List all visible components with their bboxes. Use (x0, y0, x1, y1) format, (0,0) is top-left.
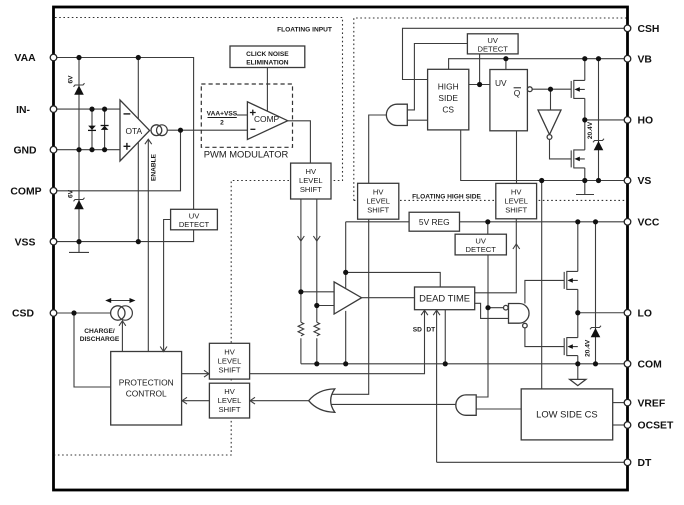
wire charge current source to protection (121, 321, 123, 352)
svg-text:COMP: COMP (254, 114, 280, 124)
svg-text:DT: DT (426, 326, 435, 333)
svg-text:DEAD TIME: DEAD TIME (419, 293, 470, 304)
floating high side dotted region boundary (354, 18, 627, 200)
wire CSD (54, 313, 111, 387)
wire mosfet drains sources high side (584, 59, 586, 181)
svg-text:HV: HV (224, 387, 235, 396)
pin VREF (624, 399, 631, 406)
wire OTA output to COMP comparator (167, 129, 247, 131)
junction latch output inverter (548, 87, 553, 92)
wire UV detect top output (479, 54, 481, 85)
svg-text:2: 2 (220, 119, 224, 126)
pin OCSET (624, 422, 631, 429)
junction VCC mosfet drain (575, 219, 580, 224)
svg-text:HO: HO (638, 116, 654, 127)
wire HV level shift lower to protection (182, 400, 209, 402)
wire nand output to mosfet gates (525, 280, 564, 346)
pin VS (624, 177, 631, 184)
wire LO (578, 312, 628, 314)
box HV level shift high side left (358, 183, 399, 219)
comparator COMP (247, 102, 287, 140)
pin CSD (50, 310, 57, 317)
box click noise elimination (230, 46, 305, 68)
arrowhead up into charge discharge source (119, 321, 126, 326)
wire vref fraction to comparator (237, 114, 248, 116)
svg-text:COM: COM (638, 360, 662, 371)
junction VB mosfet drain (582, 56, 587, 61)
svg-text:6V: 6V (68, 189, 75, 198)
arrowhead left into HV level shift lower (250, 397, 255, 404)
wire OR gate to HV level shift lower (250, 400, 309, 402)
pin IN- (50, 106, 57, 113)
wire HV level shift upper to dead time SD (250, 310, 425, 374)
wire VS to low side CS (541, 181, 543, 389)
pin DT (624, 459, 631, 466)
svg-text:PROTECTION: PROTECTION (119, 377, 174, 387)
wire low side CS to and-low (476, 408, 521, 410)
svg-text:DETECT: DETECT (179, 220, 210, 229)
svg-text:SHIFT: SHIFT (367, 205, 389, 214)
svg-text:COMP: COMP (10, 187, 41, 198)
junction VS zener (596, 178, 601, 183)
junction IN- diode A (89, 107, 94, 112)
wire and-high input1 from UV detect top (407, 44, 467, 110)
wire VB rail (449, 59, 628, 70)
svg-text:CONTROL: CONTROL (126, 388, 167, 398)
svg-text:CSD: CSD (12, 309, 34, 320)
wire HV level shift pwm output A (300, 199, 302, 364)
box PWM modulator dashed (201, 84, 292, 160)
junction uv detect top output (477, 82, 482, 87)
wire VCC rail (460, 221, 628, 223)
svg-text:OCSET: OCSET (638, 421, 674, 432)
mosfet Q2 high side lower (571, 149, 585, 168)
box HV level shift high side right (496, 183, 537, 218)
junction VSS zener (76, 239, 81, 244)
svg-text:SHIFT: SHIFT (219, 405, 241, 414)
svg-text:HV: HV (306, 167, 317, 176)
mosfet Q1 high side upper (571, 80, 585, 99)
or gate mirrored (309, 389, 335, 412)
zener 20.4V high side (593, 139, 604, 151)
svg-text:LEVEL: LEVEL (504, 197, 528, 206)
wire OTA supplies (137, 58, 139, 242)
wire dead time to nand (475, 303, 509, 318)
junction VCC zener (593, 219, 598, 224)
svg-text:VCC: VCC (638, 218, 660, 229)
wire CSH (403, 28, 628, 79)
junction VAA zener (76, 55, 81, 60)
wire VSS (54, 230, 194, 242)
pin COMP (50, 188, 57, 195)
junction HO node (582, 117, 587, 122)
svg-text:HV: HV (511, 188, 522, 197)
arrowhead up enable into OTA source (145, 139, 152, 144)
svg-text:VREF: VREF (638, 398, 666, 409)
wire HV level shift pwm output B (316, 199, 318, 364)
wire comparator out to HV level shift (288, 121, 311, 163)
svg-text:SIDE: SIDE (438, 93, 458, 103)
box HV level shift protection upper (209, 343, 249, 379)
svg-text:IN-: IN- (16, 105, 30, 116)
svg-text:LO: LO (638, 308, 652, 319)
junction LO node (575, 310, 580, 315)
svg-text:5V REG: 5V REG (419, 217, 450, 227)
pin HO (624, 117, 631, 124)
wire UV detect mid output (476, 255, 503, 397)
inverter high side (538, 110, 561, 139)
svg-text:OTA: OTA (126, 126, 143, 136)
pin VCC (624, 219, 631, 226)
svg-text:HV: HV (373, 187, 384, 196)
junction mosfet COM (575, 361, 580, 366)
svg-text:SHIFT: SHIFT (219, 365, 241, 374)
svg-text:DISCHARGE: DISCHARGE (80, 336, 120, 343)
svg-text:PWM MODULATOR: PWM MODULATOR (204, 149, 289, 160)
svg-text:DT: DT (638, 458, 653, 469)
svg-text:SD: SD (413, 326, 422, 333)
junction OTA output COMP (178, 128, 183, 133)
mosfet Q3 low side upper (564, 271, 578, 290)
wire inverter to lower gate (550, 139, 572, 159)
junction VS low side CS (539, 178, 544, 183)
svg-text:LEVEL: LEVEL (218, 356, 242, 365)
ground COM triangle (570, 379, 586, 385)
junction 5V rail dead time (343, 270, 348, 275)
svg-text:UV: UV (495, 78, 507, 88)
charge discharge current source (105, 298, 135, 320)
wire uv detect left to protection (164, 220, 171, 352)
wire VCC to UV detect mid (487, 222, 489, 234)
arrowhead down on HV level shift output B (313, 236, 320, 241)
svg-text:HIGH: HIGH (438, 82, 459, 92)
pin CSH (624, 25, 631, 32)
junction VB latch (503, 56, 508, 61)
wire VS ground stub (584, 181, 586, 195)
junction VCC uv detect (485, 219, 490, 224)
svg-text:LOW SIDE CS: LOW SIDE CS (536, 409, 597, 420)
junction zener COM (593, 361, 598, 366)
junction GND zener (76, 147, 81, 152)
resistor RB (314, 322, 320, 336)
nand gate low side (504, 304, 530, 328)
floating input dotted region boundary (55, 18, 343, 456)
junction GND diode A (89, 147, 94, 152)
wire VAA rail (54, 58, 194, 210)
box UV detect top (467, 34, 518, 54)
wire DT vertical and COM return (437, 310, 446, 463)
arrowhead up DT into dead time (433, 310, 440, 315)
mosfet Q4 low side lower (564, 337, 578, 356)
box UV detect left (171, 209, 218, 230)
wire OCSET (613, 424, 628, 426)
pin GND (50, 146, 57, 153)
current source OTA output (151, 125, 167, 136)
diode clamp down (88, 126, 96, 131)
wire COM ground stub (577, 364, 579, 380)
wire enable (147, 139, 149, 351)
and gate high side mirrored (386, 104, 407, 125)
junction driver COM (343, 361, 348, 366)
svg-text:CS: CS (442, 104, 454, 114)
wire 5V rail to dead time and COM (346, 222, 441, 364)
junction CSD (71, 310, 76, 315)
svg-text:Q: Q (514, 88, 521, 98)
wire IN- (54, 108, 121, 110)
box protection control (111, 352, 182, 426)
svg-text:HV: HV (224, 347, 235, 356)
arrowhead down on HV level shift output A (298, 236, 305, 241)
wire driver inputs (301, 292, 334, 306)
wire VS rail (461, 130, 628, 181)
box HV level shift protection lower (209, 383, 249, 418)
svg-text:VSS: VSS (15, 237, 36, 248)
label vref fraction (207, 111, 238, 127)
pin VAA (50, 54, 57, 61)
svg-text:20.4V: 20.4V (587, 121, 594, 139)
pin VB (624, 55, 631, 62)
box low side CS (521, 389, 613, 440)
wire zener low side (595, 222, 597, 364)
wire diode pair (92, 109, 105, 150)
junction dead time COM (443, 361, 448, 366)
wire dead time to HV level shift right (475, 219, 517, 293)
wire zener high side (598, 59, 600, 181)
pin LO (624, 309, 631, 316)
wire DT pin (437, 461, 628, 463)
wire COMP (54, 130, 181, 191)
junction IN- diode B (102, 107, 107, 112)
svg-text:6V: 6V (68, 75, 75, 84)
junction resistor COM (314, 361, 319, 366)
pin VSS (50, 238, 57, 245)
svg-text:GND: GND (13, 145, 37, 156)
wire left clamp rail x=79 (78, 58, 80, 253)
junction uv detect mid nand (485, 305, 490, 310)
wire VREF (613, 402, 628, 404)
svg-text:ENABLE: ENABLE (151, 153, 158, 181)
wire COM rail (301, 363, 628, 365)
svg-text:DETECT: DETECT (478, 45, 509, 54)
wire mosfet drains sources low side (577, 222, 579, 364)
svg-text:CLICK NOISE: CLICK NOISE (246, 51, 289, 58)
wire and-high to HV level shift left and OR gate (332, 115, 387, 394)
ground left (69, 251, 89, 253)
wire click noise to comparator (266, 68, 268, 112)
junction driver input A (298, 289, 303, 294)
svg-text:LEVEL: LEVEL (218, 396, 242, 405)
svg-text:ELIMINATION: ELIMINATION (246, 60, 289, 67)
wire HO (585, 119, 628, 121)
junction driver input B (314, 303, 319, 308)
zener 6V lower (74, 198, 85, 210)
wire latch Q to gates (532, 89, 571, 110)
wire VB to latch (505, 59, 507, 70)
svg-text:VS: VS (638, 176, 652, 187)
svg-text:FLOATING HIGH SIDE: FLOATING HIGH SIDE (412, 193, 481, 200)
svg-text:VAA: VAA (14, 53, 36, 64)
svg-text:VB: VB (638, 54, 653, 65)
wire and-high input2 from high side CS (407, 119, 427, 121)
arrowhead right into HV level shift upper (204, 370, 209, 377)
svg-text:CSH: CSH (638, 24, 660, 35)
wire latch bottom to HV level shift right (516, 131, 518, 184)
junction VB zener (596, 56, 601, 61)
svg-text:VAA+VSS: VAA+VSS (207, 111, 238, 118)
op-amp OTA (120, 100, 150, 161)
box dead time (415, 287, 475, 310)
box high side CS (428, 69, 469, 130)
svg-text:20.4V: 20.4V (585, 339, 592, 357)
svg-text:LEVEL: LEVEL (366, 196, 390, 205)
box 5V REG (409, 212, 459, 231)
resistor RA (298, 322, 304, 336)
zener 20.4V low side (590, 326, 601, 338)
box UV detect mid (455, 234, 506, 255)
svg-text:FLOATING INPUT: FLOATING INPUT (277, 27, 332, 34)
svg-text:SHIFT: SHIFT (300, 185, 322, 194)
junction VS mosfet source (582, 178, 587, 183)
arrowhead up SD into dead time (421, 310, 428, 315)
svg-text:DETECT: DETECT (466, 245, 497, 254)
diode clamp up (101, 126, 109, 130)
box HV level shift under pwm (291, 163, 331, 199)
box latch UV Q (490, 70, 532, 131)
svg-text:CHARGE/: CHARGE/ (84, 328, 115, 335)
svg-text:LEVEL: LEVEL (299, 176, 323, 185)
arrowhead left into protection control (182, 397, 187, 404)
arrowhead down into protection control (160, 347, 167, 352)
and gate low side mirrored (456, 395, 476, 415)
wire GND (54, 149, 121, 151)
driver triangle (334, 282, 362, 314)
wire high side CS to latch (469, 84, 490, 86)
wire driver output to dead time (362, 297, 415, 299)
svg-text:SHIFT: SHIFT (505, 206, 527, 215)
arrowhead up into HV level shift right (513, 244, 520, 249)
wire and-low output to OR (332, 403, 456, 405)
ground VS bar (576, 194, 594, 196)
junction GND diode B (102, 147, 107, 152)
pin COM (624, 361, 631, 368)
junction VAA OTA supply (136, 55, 141, 60)
junction VSS OTA supply (136, 239, 141, 244)
zener 6V upper (74, 83, 85, 95)
wire protection to HV level shift upper (182, 373, 209, 375)
